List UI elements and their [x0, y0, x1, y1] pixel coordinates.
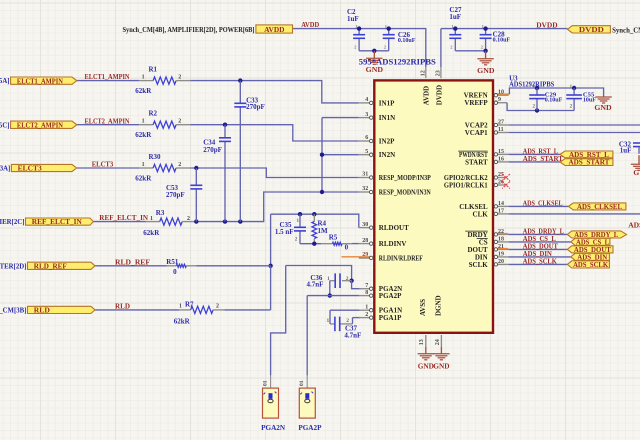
svg-text:ELCT2_AMPIN: ELCT2_AMPIN: [17, 120, 64, 129]
svg-text:595*ADS1292RIPBS: 595*ADS1292RIPBS: [359, 57, 436, 66]
svg-text:RLDINV: RLDINV: [379, 240, 407, 248]
svg-text:0.10uF: 0.10uF: [493, 37, 511, 43]
svg-text:Synch_CM[4B], AMPLIFIER[2D], P: Synch_CM[4B], AMPLIFIER[2D], POWER[6B]: [123, 26, 255, 34]
svg-text:AVDD: AVDD: [422, 86, 430, 105]
svg-text:ELCT3: ELCT3: [18, 164, 42, 173]
svg-text:GPIO1/RCLK1: GPIO1/RCLK1: [444, 182, 488, 190]
svg-text:19: 19: [498, 251, 504, 257]
svg-text:R51: R51: [166, 258, 179, 266]
svg-text:23: 23: [435, 70, 441, 76]
svg-text:9: 9: [498, 97, 501, 103]
svg-text:RLD: RLD: [34, 306, 50, 315]
svg-text:10uF: 10uF: [583, 98, 596, 104]
svg-text:62kR: 62kR: [135, 131, 152, 139]
svg-text:15: 15: [498, 149, 504, 155]
svg-text:1: 1: [327, 276, 330, 282]
svg-text:24: 24: [435, 339, 441, 345]
svg-text:14: 14: [498, 201, 504, 207]
svg-text:17: 17: [498, 208, 504, 214]
svg-text:1: 1: [142, 119, 145, 125]
svg-text:28: 28: [362, 238, 368, 244]
svg-text:5A]: 5A]: [0, 78, 10, 85]
svg-text:4.7nF: 4.7nF: [306, 281, 323, 289]
svg-text:18: 18: [498, 236, 504, 242]
svg-text:32: 32: [362, 186, 368, 192]
svg-text:RLDOUT: RLDOUT: [379, 224, 409, 232]
svg-text:ADS_SCLK: ADS_SCLK: [573, 260, 608, 269]
svg-text:ADS_START: ADS_START: [568, 158, 609, 167]
svg-text:ELCT1_AMPIN: ELCT1_AMPIN: [85, 72, 130, 81]
svg-text:1: 1: [150, 216, 153, 222]
svg-text:8: 8: [365, 290, 368, 296]
svg-text:2: 2: [178, 75, 181, 81]
svg-text:ADS_CLKSEL: ADS_CLKSEL: [523, 198, 563, 207]
svg-text:R30: R30: [149, 153, 162, 161]
svg-text:0: 0: [345, 244, 349, 252]
svg-text:1M: 1M: [318, 227, 329, 235]
svg-text:REF_ELCT_IN: REF_ELCT_IN: [32, 217, 83, 226]
svg-text:VREFP: VREFP: [464, 99, 488, 107]
svg-text:R7: R7: [185, 301, 194, 309]
svg-text:270pF: 270pF: [203, 146, 222, 154]
svg-text:20: 20: [498, 259, 504, 265]
svg-text:RESP_MODN/IN3N: RESP_MODN/IN3N: [379, 189, 431, 197]
svg-text:2: 2: [365, 312, 368, 318]
svg-text:START: START: [465, 158, 488, 166]
svg-text:2: 2: [346, 318, 349, 324]
svg-text:29: 29: [362, 252, 368, 258]
svg-text:R1: R1: [149, 66, 158, 74]
svg-text:01: 01: [299, 380, 305, 386]
svg-text:10: 10: [498, 90, 504, 96]
svg-text:ADS_SCLK: ADS_SCLK: [523, 256, 557, 265]
svg-text:31: 31: [362, 172, 368, 178]
svg-text:2: 2: [216, 304, 219, 310]
svg-text:270pF: 270pF: [246, 103, 265, 111]
svg-text:ELCT1_AMPIN: ELCT1_AMPIN: [17, 76, 64, 85]
svg-text:3A]: 3A]: [0, 166, 10, 173]
svg-text:ELCT2_AMPIN: ELCT2_AMPIN: [85, 116, 130, 125]
svg-text:1uF: 1uF: [449, 13, 461, 21]
svg-text:PGA2P: PGA2P: [379, 292, 402, 300]
svg-text:GND: GND: [477, 66, 495, 75]
svg-text:1: 1: [327, 318, 330, 324]
svg-text:4: 4: [365, 97, 368, 103]
svg-text:2: 2: [178, 119, 181, 125]
svg-text:4.7nF: 4.7nF: [344, 332, 361, 340]
svg-text:1: 1: [142, 162, 145, 168]
svg-text:3: 3: [365, 112, 368, 118]
svg-text:SCLK: SCLK: [469, 261, 489, 269]
svg-text:2: 2: [346, 276, 349, 282]
svg-text:0.10uF: 0.10uF: [398, 38, 416, 44]
svg-text:62kR: 62kR: [174, 317, 191, 325]
svg-text:16: 16: [498, 156, 504, 162]
svg-text:2: 2: [178, 162, 181, 168]
svg-text:0.10uF: 0.10uF: [545, 98, 563, 104]
svg-text:GND: GND: [366, 65, 384, 74]
svg-text:270pF: 270pF: [166, 191, 185, 199]
svg-text:1.5 nF: 1.5 nF: [275, 228, 294, 236]
svg-text:IN2P: IN2P: [379, 138, 395, 146]
svg-text:Synch_CM: Synch_CM: [612, 27, 640, 34]
svg-text:5C]: 5C]: [0, 122, 10, 129]
svg-text:RESP_MODP/IN3P: RESP_MODP/IN3P: [379, 174, 432, 182]
svg-text:RLD: RLD: [115, 302, 130, 311]
svg-text:R3: R3: [156, 209, 165, 217]
svg-text:VCAP1: VCAP1: [465, 129, 488, 137]
svg-text:DVDD: DVDD: [536, 20, 558, 29]
svg-text:1: 1: [179, 304, 182, 310]
svg-text:REF_ELCT_IN: REF_ELCT_IN: [99, 213, 148, 222]
svg-text:RLD_REF: RLD_REF: [115, 257, 150, 266]
svg-text:21: 21: [498, 244, 504, 250]
svg-text:7: 7: [365, 283, 368, 289]
svg-text:1: 1: [142, 75, 145, 81]
svg-text:DGND: DGND: [434, 295, 442, 316]
svg-text:12: 12: [420, 70, 426, 76]
svg-text:62kR: 62kR: [135, 87, 152, 95]
svg-text:ADS: ADS: [628, 221, 640, 230]
svg-text:1: 1: [365, 304, 368, 310]
svg-text:GND: GND: [433, 361, 449, 370]
svg-text:PGA1P: PGA1P: [379, 314, 402, 322]
svg-text:PGA2N: PGA2N: [261, 424, 286, 432]
svg-text:IN2N: IN2N: [379, 151, 395, 159]
svg-text:IN1P: IN1P: [379, 99, 395, 107]
svg-text:DVDD: DVDD: [436, 85, 444, 105]
svg-text:62kR: 62kR: [143, 229, 160, 237]
svg-text:11: 11: [498, 127, 504, 133]
svg-text:01: 01: [262, 380, 268, 386]
svg-text:_CM[3B]: _CM[3B]: [0, 308, 26, 315]
svg-text:RLD_REF: RLD_REF: [34, 261, 68, 270]
svg-text:PGA2P: PGA2P: [298, 424, 322, 432]
svg-text:TER[2D]: TER[2D]: [0, 264, 26, 271]
svg-text:RLDIN/RLDREF: RLDIN/RLDREF: [379, 254, 423, 262]
svg-text:IN1N: IN1N: [379, 114, 395, 122]
svg-text:DVDD: DVDD: [579, 25, 604, 34]
svg-text:62kR: 62kR: [135, 174, 152, 182]
svg-text:5: 5: [365, 149, 368, 155]
svg-text:GND: GND: [594, 103, 612, 112]
svg-text:FIER[2C]: FIER[2C]: [0, 219, 24, 226]
svg-text:R2: R2: [149, 110, 158, 118]
svg-text:GND: GND: [418, 361, 434, 370]
svg-text:G: G: [633, 168, 639, 177]
svg-text:ELCT3: ELCT3: [92, 160, 114, 169]
svg-text:1uF: 1uF: [620, 146, 632, 154]
svg-text:AVSS: AVSS: [419, 299, 427, 316]
svg-text:30: 30: [362, 222, 368, 228]
svg-text:1uF: 1uF: [347, 15, 359, 23]
svg-text:AVDD: AVDD: [301, 20, 319, 29]
svg-text:13: 13: [419, 339, 425, 345]
svg-text:0: 0: [173, 268, 177, 276]
svg-text:ADS1292RIPBS: ADS1292RIPBS: [509, 81, 554, 89]
svg-text:22: 22: [498, 229, 504, 235]
svg-text:CLK: CLK: [473, 210, 489, 218]
svg-text:ADS_START: ADS_START: [523, 154, 563, 163]
svg-text:R5: R5: [329, 234, 338, 242]
svg-text:AVDD: AVDD: [264, 25, 284, 34]
svg-text:2: 2: [187, 216, 190, 222]
svg-text:6: 6: [365, 135, 368, 141]
svg-text:27: 27: [498, 119, 504, 125]
svg-text:ADS_CLKSEL: ADS_CLKSEL: [577, 202, 622, 211]
